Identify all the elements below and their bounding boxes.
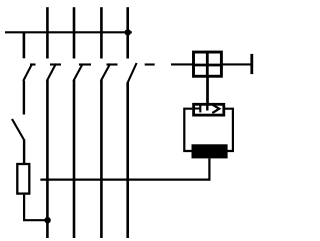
junction resistor/L1 <box>44 217 50 223</box>
wire CT to trip relay <box>206 77 209 104</box>
relay right terminal wire <box>225 109 233 151</box>
CT cross horizontal <box>192 64 223 67</box>
resistor R <box>17 164 29 194</box>
mechanical linkage dash (L3) <box>107 63 118 65</box>
wire solenoid to sense line <box>40 158 209 179</box>
supply bus wire <box>5 31 132 33</box>
pole L1 lower wire <box>46 80 49 238</box>
trip coil solenoid (filled) <box>192 144 228 158</box>
wire resistor to neutral junction <box>24 195 47 221</box>
junction bus/N <box>125 29 131 35</box>
current transformer CT core <box>194 52 222 76</box>
relay plunger line <box>206 104 208 111</box>
pole L3 lower wire <box>100 80 103 238</box>
pole L1 top wire <box>46 7 49 58</box>
mechanical linkage dash (L2) <box>79 63 91 65</box>
mechanical linkage dash (N-CT gap) <box>145 63 155 65</box>
switch contact blade pole N <box>127 63 136 84</box>
mechanical linkage dash (test) <box>30 63 36 65</box>
switch contact blade pole L2 <box>73 64 82 81</box>
test branch stub wire <box>23 32 26 58</box>
CT cross vertical <box>206 51 209 78</box>
pole L3 top wire <box>100 7 103 58</box>
pole L2 lower wire <box>73 80 76 238</box>
pole N top wire <box>126 7 129 58</box>
wire CT to armature stop <box>223 63 251 65</box>
relay left terminal wire <box>184 109 192 151</box>
relay arrow symbol <box>212 105 219 113</box>
relay stop symbol <box>195 105 201 112</box>
pole L2 top wire <box>73 7 76 58</box>
test button SB blade <box>12 119 24 141</box>
trip relay K box <box>194 104 224 115</box>
test branch wire to test button <box>23 81 25 115</box>
wire test button to resistor <box>23 140 25 164</box>
switch contact blade (test branch) <box>23 64 32 81</box>
linkage wire into CT <box>171 63 192 65</box>
switch contact blade pole L3 <box>101 64 110 81</box>
mechanical linkage dash (L1) <box>50 63 61 65</box>
armature stop bar <box>250 54 253 74</box>
pole N lower wire <box>126 83 129 239</box>
switch contact blade pole L1 <box>47 64 56 81</box>
